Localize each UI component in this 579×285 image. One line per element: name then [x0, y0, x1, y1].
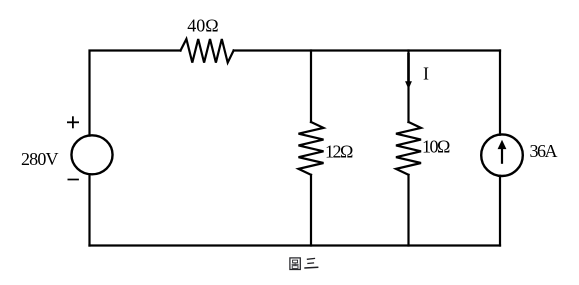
svg-text:12Ω: 12Ω: [325, 142, 353, 162]
svg-text:10Ω: 10Ω: [422, 137, 450, 157]
resistor R3 10ohm zigzag: [396, 122, 421, 175]
polarity plus: [67, 116, 79, 128]
svg-text:280V: 280V: [21, 149, 59, 169]
svg-text:I: I: [423, 64, 429, 84]
caption figure-three char SAN: [304, 258, 318, 268]
resistor R2 12ohm zigzag: [299, 122, 324, 175]
svg-text:40Ω: 40Ω: [187, 16, 218, 36]
wire right vertical top: [499, 51, 501, 135]
svg-text:36A: 36A: [530, 141, 558, 161]
wire right vertical bottom: [499, 176, 501, 246]
wire 10ohm branch top: [407, 51, 409, 123]
wire top rail right of R1: [234, 49, 500, 51]
wire 12ohm branch top: [310, 51, 312, 123]
voltage source V1 circle: [71, 135, 112, 174]
wire left-bottom vertical: [88, 174, 90, 245]
current source arrow up: [498, 140, 507, 164]
current source I1 circle: [481, 134, 523, 176]
caption figure-three char TU: [290, 258, 300, 270]
polarity minus: [68, 179, 79, 181]
wire left-top vertical: [90, 51, 181, 136]
wire 10ohm branch bottom: [407, 175, 409, 246]
current arrow I on 10ohm branch: [405, 53, 412, 89]
wire 12ohm branch bottom: [310, 175, 312, 246]
resistor R1 40ohm zigzag: [181, 39, 234, 63]
wire bottom rail: [90, 244, 501, 246]
